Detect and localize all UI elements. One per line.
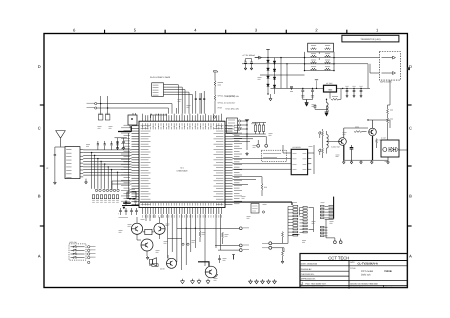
resistor array RN1 column — [288, 206, 298, 237]
ground mid power — [269, 97, 272, 101]
transistor Q6 — [369, 120, 377, 161]
capacitor C62 C63 — [130, 208, 138, 215]
connector SW+B dashed box — [379, 52, 400, 84]
dashed box AV jumper — [261, 150, 286, 161]
node pad near R11 — [213, 116, 215, 118]
resistor R61 — [149, 264, 158, 267]
regulator U3 7805 — [271, 82, 363, 92]
component value labels scattered — [86, 78, 389, 281]
wire bold to Q7 — [198, 262, 209, 266]
crystal X1 — [122, 190, 139, 210]
svg-text:B: B — [38, 193, 41, 198]
svg-text:PREF: PREF — [218, 107, 223, 110]
svg-text:79XXB: 79XXB — [384, 270, 392, 273]
transistor Q2 — [154, 223, 165, 234]
resistor R40 R41 — [387, 105, 393, 124]
svg-text:B: B — [409, 193, 412, 198]
connector J2 LED/KEY/IR box — [150, 76, 171, 96]
wire left lower links — [112, 181, 132, 190]
wire top feeds RF — [344, 119, 390, 128]
resistor trio R30-R32 — [251, 123, 266, 135]
capacitors at regulator input — [290, 87, 314, 106]
svg-text:U3 7805: U3 7805 — [326, 82, 332, 85]
resistor R53 — [376, 139, 382, 149]
resistor array RN2 column — [300, 207, 308, 233]
capacitor C65 — [218, 255, 221, 263]
capacitors right of regulator — [345, 86, 370, 97]
connector jacks J3 J4 — [319, 132, 321, 155]
resistor array RN5 lower — [320, 226, 327, 236]
wire riser bold — [333, 197, 335, 219]
RF modulator box U4 — [381, 140, 407, 161]
svg-text:APPROVED BY:: APPROVED BY: — [301, 278, 316, 281]
svg-text:REV: 1.0: REV: 1.0 — [385, 286, 393, 289]
tuner TU1 box — [65, 147, 83, 179]
grounds bottom right — [249, 260, 284, 284]
grounds RF section — [342, 160, 389, 164]
U1 bottom pins and pin numbers — [143, 202, 222, 218]
svg-text:+C 3V 100mA: +C 3V 100mA — [242, 54, 255, 57]
svg-text:CCT TECH: CCT TECH — [328, 256, 349, 261]
wire right bus to resistors — [233, 120, 266, 151]
U1 right pins, numbers and net labels — [214, 125, 243, 204]
wires ladder to connector — [334, 58, 379, 89]
wire routing from J2 to U1 top — [166, 85, 192, 114]
transistor Q1 — [131, 223, 142, 234]
wires audio transistors — [137, 217, 160, 256]
resistor R64 — [232, 255, 235, 260]
ground audio — [146, 256, 149, 259]
wire from connector down — [389, 80, 391, 105]
ground below antenna cap — [53, 181, 56, 184]
U1 top pins and pin numbers — [142, 114, 222, 130]
resistor R60 between — [143, 229, 154, 234]
svg-text:DVD sch: DVD sch — [361, 274, 371, 277]
svg-text:,|: ,| — [301, 282, 303, 286]
svg-text:NTSC (PAL) SW: NTSC (PAL) SW — [226, 107, 240, 110]
node pads bottom left pair — [262, 235, 288, 252]
connector pads row below tuner — [95, 189, 119, 191]
capacitor C_ant — [54, 147, 65, 160]
transistor Q7 — [205, 266, 217, 278]
svg-text:TITLE:: TITLE: — [350, 267, 356, 270]
capacitor C35 — [312, 104, 329, 116]
svg-text:FILE: T800 MAIN-SCH: FILE: T800 MAIN-SCH — [306, 282, 327, 285]
resistor R70 R71 — [282, 232, 284, 261]
svg-text:SW+B CONN: SW+B CONN — [380, 80, 392, 83]
svg-text:KEY SW: KEY SW — [70, 241, 77, 244]
eeprom U2 24C02 — [288, 146, 312, 175]
transistor Q4 — [160, 255, 177, 271]
svg-text:U2 24C02: U2 24C02 — [293, 146, 301, 149]
diode chain D5-D8 — [273, 58, 276, 94]
switch box S1-S4 dashed — [69, 241, 86, 260]
IR receiver U5 — [128, 113, 137, 128]
antenna ANT1 — [56, 131, 66, 147]
svg-text:TRANSISTOR (+5V): TRANSISTOR (+5V) — [360, 38, 380, 41]
wire bold audio trace — [140, 202, 292, 205]
capacitor C60 C61 electrolytic — [118, 208, 128, 218]
node KEY-IN wires long horizontals — [87, 103, 173, 114]
svg-text:PLAY LED/KEY SW/IR: PLAY LED/KEY SW/IR — [150, 76, 171, 79]
resistor row R-array below pads — [92, 195, 119, 202]
resistor array RN3 — [320, 205, 328, 218]
transistor network Q10-Q15 ladder — [304, 43, 335, 71]
wire audio out lines — [168, 227, 249, 252]
wire long vertical feed — [127, 133, 129, 199]
node +5V flag — [315, 80, 318, 89]
svg-text:C: C — [38, 125, 41, 130]
svg-text:CHECKED BY:: CHECKED BY: — [301, 273, 315, 276]
svg-text:DRAWN BY:: DRAWN BY: — [301, 268, 313, 271]
svg-text:A: A — [38, 253, 41, 258]
svg-text:BOARD NO: 80-B05-/T800 0000: BOARD NO: 80-B05-/T800 0000 — [350, 282, 377, 285]
node pads P1 P2 — [257, 136, 268, 147]
svg-text:PCB FILE: 19TA3-M.PCB: PCB FILE: 19TA3-M.PCB — [301, 286, 324, 289]
transistor Q5 — [327, 128, 347, 161]
U1 left pins, numbers and net labels — [121, 125, 151, 204]
svg-text:DATE: 06/05/2005: DATE: 06/05/2005 — [301, 263, 318, 266]
component CN3 small box — [251, 204, 265, 214]
wire header links — [292, 208, 335, 238]
capacitor C50 bold — [350, 145, 354, 161]
connector CN2 near U1 top right — [227, 118, 241, 133]
resistor R10 R11 vertical chain with net flag — [213, 71, 223, 114]
resistor R33 vertical — [261, 177, 267, 196]
svg-text:A: A — [409, 253, 412, 258]
inductor L1 — [326, 88, 341, 112]
resistor R-key pair — [98, 96, 110, 120]
wire bold trace to U1 — [118, 126, 132, 132]
node pads Q-area — [182, 243, 189, 245]
diode chain D1-D4 — [266, 50, 269, 95]
speaker SP1 — [150, 258, 157, 266]
wire tuner-to-IC bus — [83, 150, 131, 175]
wire SW+B resistors to modulator — [381, 124, 388, 141]
capacitor C30 C31 cluster — [244, 56, 262, 70]
resistor R50 R51 stack — [320, 129, 324, 158]
wire drops from U1 bottom — [146, 214, 221, 270]
ground top right mid — [246, 152, 249, 155]
svg-text:CH05T1628: CH05T1628 — [177, 170, 189, 173]
svg-text:CCT model: CCT model — [361, 270, 374, 273]
op-amp U1 main IC CH05T1628 body — [139, 121, 225, 207]
capacitor C20 C21 left of U1 — [115, 138, 127, 150]
transistor Q3 — [141, 239, 153, 251]
node key pads — [88, 246, 96, 264]
resistor R62 vertical — [199, 214, 201, 242]
label box TRANSISTOR header — [342, 35, 399, 42]
svg-text:D: D — [38, 64, 41, 69]
capacitors above bus — [97, 141, 119, 150]
wire power rails — [242, 57, 305, 89]
wire bundle into U1 top — [177, 91, 205, 114]
inductor L2 coil — [327, 131, 329, 154]
wire lower right runs — [233, 177, 263, 185]
wire top manifold — [151, 114, 167, 118]
node pads P3 P4 — [334, 238, 343, 244]
node label SPIRAL texts — [218, 95, 236, 110]
resistor array RN4 — [329, 205, 334, 218]
capacitors on top bundle — [195, 99, 206, 100]
svg-text:C: C — [409, 125, 412, 130]
ground tuner — [85, 181, 88, 184]
wire U1 to U2 — [233, 145, 315, 174]
svg-text:R33: R33 — [264, 186, 267, 189]
svg-text:SPIRAL NO CONNECT: SPIRAL NO CONNECT — [218, 102, 236, 105]
wire vertical drops below tuner bus — [91, 152, 118, 189]
title block — [300, 254, 407, 290]
resistor R63 vertical — [222, 232, 224, 244]
grounds bottom row — [180, 279, 210, 284]
svg-text:PAL (NTSC) SW: PAL (NTSC) SW — [226, 95, 239, 98]
svg-text:CL-TV2100UV-A: CL-TV2100UV-A — [358, 263, 378, 266]
svg-text:DOC:: DOC: — [350, 261, 355, 264]
resistor R52 horizontal — [354, 131, 367, 133]
svg-text:SHEET 1 OF 5: SHEET 1 OF 5 — [350, 286, 363, 289]
